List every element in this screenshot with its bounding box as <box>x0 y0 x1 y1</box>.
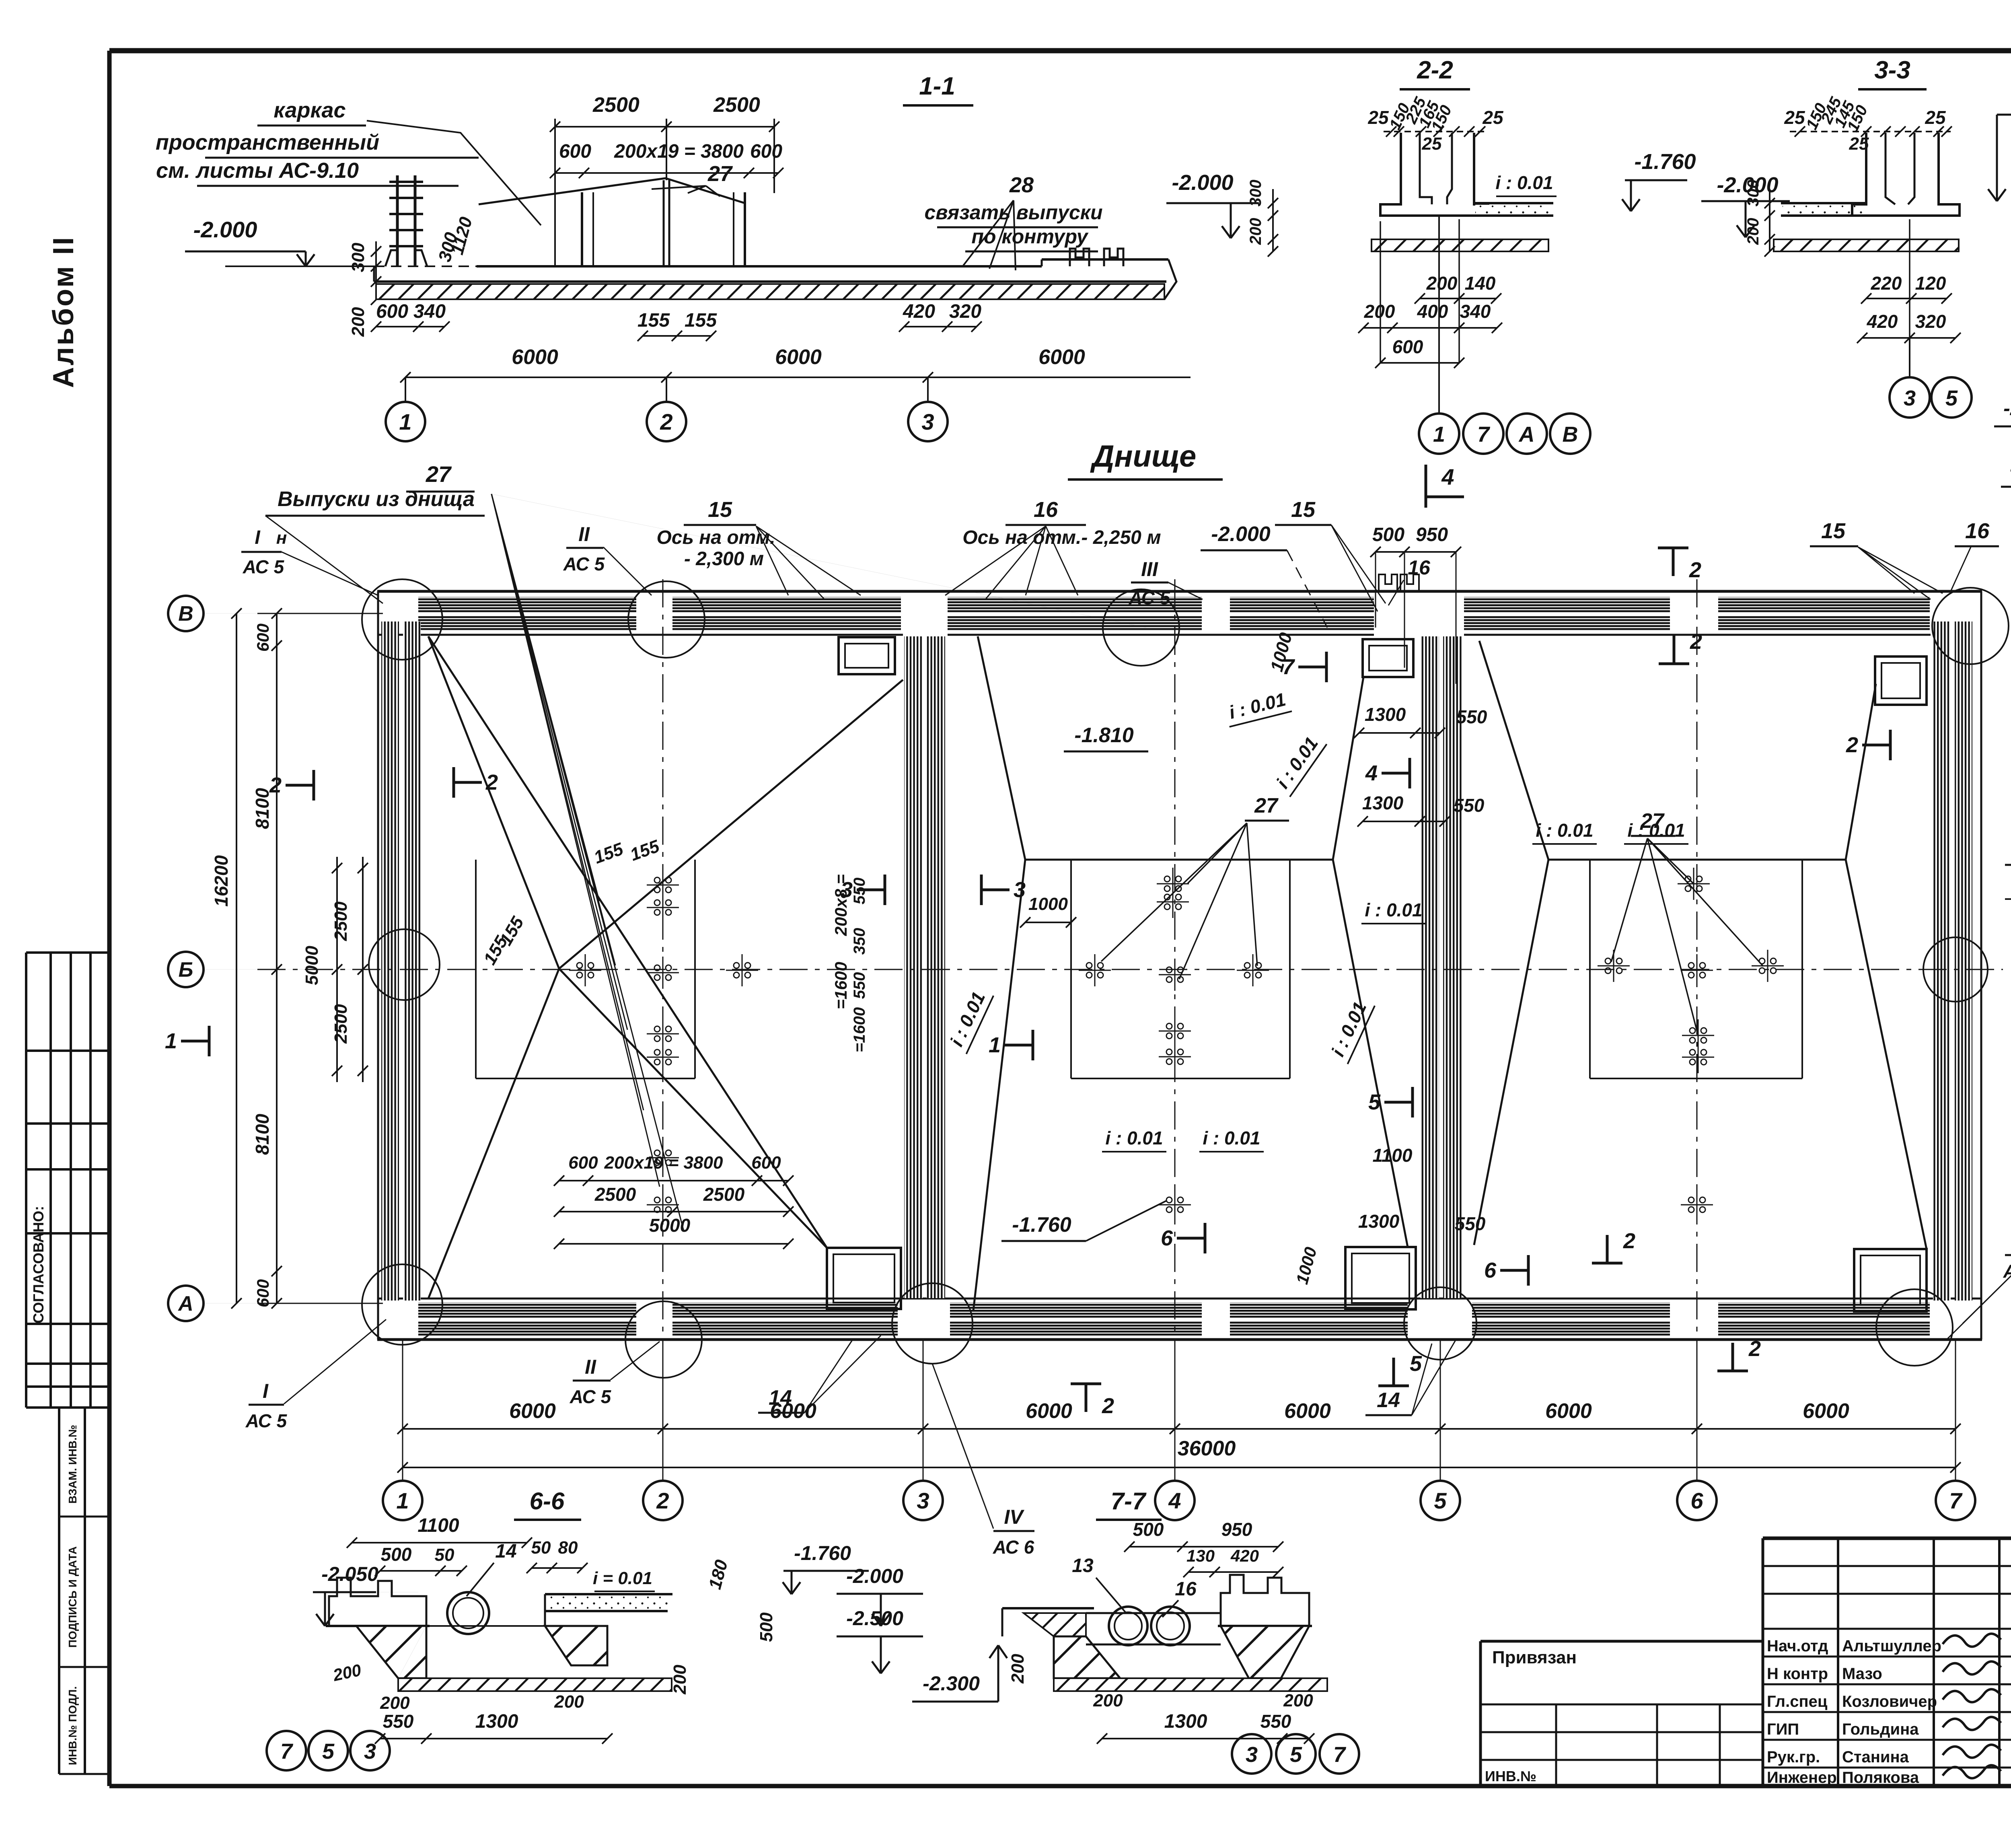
svg-text:320: 320 <box>1915 311 1946 332</box>
svg-text:4: 4 <box>1441 464 1454 490</box>
flag 4 below <box>1425 465 1427 508</box>
flags inside plan <box>313 770 315 801</box>
axis circles 1 2 3 <box>405 377 406 402</box>
6-6 wall <box>329 1578 426 1626</box>
dowel pins top band axis4 <box>1379 574 1397 591</box>
svg-text:Козловичер: Козловичер <box>1842 1693 1937 1710</box>
leader to column <box>367 121 541 225</box>
svg-text:600: 600 <box>253 1279 272 1307</box>
svg-text:I: I <box>255 527 261 548</box>
svg-text:2: 2 <box>1689 558 1701 582</box>
svg-text:-1.760: -1.760 <box>794 1542 851 1564</box>
svg-text:340: 340 <box>413 301 446 322</box>
svg-text:950: 950 <box>1416 524 1448 545</box>
svg-text:3: 3 <box>1904 386 1916 410</box>
svg-text:8100: 8100 <box>252 1113 273 1155</box>
svg-text:А: А <box>1518 422 1535 447</box>
svg-text:по контуру: по контуру <box>971 225 1088 248</box>
plan top wall band <box>377 590 1982 593</box>
svg-text:-2.000: -2.000 <box>1172 171 1233 195</box>
svg-text:200: 200 <box>1744 218 1762 245</box>
svg-text:15: 15 <box>708 498 732 522</box>
svg-text:120: 120 <box>1915 273 1946 294</box>
svg-text:500: 500 <box>381 1544 412 1565</box>
portal frame <box>581 192 583 265</box>
svg-text:200: 200 <box>1364 301 1395 322</box>
svg-text:Б: Б <box>179 958 193 982</box>
svg-text:3: 3 <box>1246 1743 1258 1767</box>
svg-text:АС 6: АС 6 <box>993 1537 1034 1558</box>
svg-text:-2.000: -2.000 <box>193 217 257 242</box>
svg-text:2: 2 <box>1623 1229 1635 1253</box>
svg-text:950: 950 <box>1221 1519 1252 1540</box>
svg-text:320: 320 <box>949 301 981 322</box>
svg-text:i : 0.01: i : 0.01 <box>1365 899 1422 920</box>
svg-text:Альтшуллер: Альтшуллер <box>1842 1637 1941 1655</box>
svg-text:=1600: =1600 <box>831 962 850 1009</box>
plan columns section2 <box>1157 883 1189 885</box>
svg-text:Привязан: Привязан <box>1492 1648 1577 1667</box>
equipment zones <box>475 860 477 1078</box>
svg-text:15: 15 <box>1291 498 1316 522</box>
svg-text:600: 600 <box>751 1153 781 1173</box>
svg-text:7: 7 <box>1333 1743 1347 1767</box>
partition wall axis5 <box>1421 636 1439 1298</box>
svg-text:400: 400 <box>1417 301 1448 322</box>
svg-text:-1.760: -1.760 <box>1634 150 1696 174</box>
svg-text:СОГЛАСОВАНО:: СОГЛАСОВАНО: <box>30 1206 47 1323</box>
svg-text:1100: 1100 <box>417 1515 459 1536</box>
svg-text:420: 420 <box>1230 1546 1259 1565</box>
svg-text:1300: 1300 <box>1164 1711 1207 1732</box>
svg-text:6000: 6000 <box>512 346 558 369</box>
svg-text:25: 25 <box>1482 107 1504 128</box>
column axis2 <box>663 180 665 265</box>
svg-text:4: 4 <box>1365 761 1378 785</box>
svg-text:500: 500 <box>1372 524 1404 545</box>
svg-text:6: 6 <box>1161 1226 1173 1250</box>
svg-text:5: 5 <box>1290 1743 1302 1767</box>
svg-text:I: I <box>263 1380 269 1402</box>
svg-text:5: 5 <box>1368 1090 1381 1114</box>
svg-text:6: 6 <box>1690 1488 1703 1513</box>
svg-text:1: 1 <box>396 1488 409 1513</box>
axis circles V B A <box>205 613 383 614</box>
svg-text:1: 1 <box>989 1033 1001 1057</box>
svg-text:каркас: каркас <box>273 98 345 122</box>
sump pits <box>839 637 895 674</box>
section flag 4 top <box>1425 465 1426 508</box>
svg-text:50: 50 <box>435 1545 454 1565</box>
svg-text:6000: 6000 <box>1038 346 1085 369</box>
svg-text:6000: 6000 <box>775 346 822 369</box>
svg-text:В: В <box>1563 422 1578 447</box>
svg-text:АС 6: АС 6 <box>2003 1261 2011 1282</box>
svg-text:550: 550 <box>1454 795 1485 816</box>
svg-text:7: 7 <box>1949 1488 1963 1513</box>
svg-text:Гольдина: Гольдина <box>1842 1720 1919 1738</box>
svg-text:14: 14 <box>769 1386 792 1410</box>
svg-text:220: 220 <box>1871 273 1902 294</box>
svg-text:550: 550 <box>383 1711 414 1732</box>
svg-text:200x19 = 3800: 200x19 = 3800 <box>604 1153 723 1173</box>
svg-text:340: 340 <box>1460 301 1491 322</box>
svg-text:i = 0.01: i = 0.01 <box>593 1568 652 1588</box>
7-7 slab left hatched <box>1024 1613 1086 1636</box>
svg-text:-1.810: -1.810 <box>1074 724 1134 747</box>
svg-text:550: 550 <box>1260 1711 1291 1732</box>
svg-text:6000: 6000 <box>1803 1399 1849 1423</box>
svg-text:14: 14 <box>1377 1389 1400 1412</box>
svg-text:200: 200 <box>380 1693 410 1713</box>
svg-text:Выпуски из днища: Выпуски из днища <box>278 488 475 511</box>
partition wall axis3 <box>904 636 923 1298</box>
svg-text:1: 1 <box>165 1029 177 1053</box>
svg-text:3: 3 <box>917 1488 929 1513</box>
svg-text:-2.500: -2.500 <box>846 1607 903 1630</box>
svg-text:600: 600 <box>559 141 591 162</box>
svg-text:28: 28 <box>1009 173 1034 197</box>
svg-text:1000: 1000 <box>1028 894 1068 914</box>
svg-text:Нач.отд: Нач.отд <box>1767 1637 1828 1655</box>
svg-text:13: 13 <box>1072 1555 1094 1576</box>
svg-text:200: 200 <box>348 307 368 337</box>
column axis1 karkas <box>396 175 399 265</box>
svg-text:i : 0.01: i : 0.01 <box>1105 1128 1163 1148</box>
svg-text:200x19 = 3800: 200x19 = 3800 <box>614 141 744 162</box>
title block <box>1763 1537 2011 1540</box>
privyazan box <box>1480 1640 1763 1643</box>
inventory column <box>58 1408 60 1774</box>
slope lines section3 <box>1479 641 1548 860</box>
svg-text:ИНВ.№ ПОДЛ.: ИНВ.№ ПОДЛ. <box>66 1686 79 1765</box>
svg-text:5: 5 <box>1945 386 1958 410</box>
slab break right <box>1164 259 1176 299</box>
svg-text:II: II <box>585 1356 596 1378</box>
svg-text:420: 420 <box>1867 311 1898 332</box>
svg-text:5: 5 <box>1410 1352 1422 1376</box>
7-7 circles 3 5 7 <box>1232 1734 1271 1774</box>
svg-text:6: 6 <box>1484 1258 1497 1282</box>
svg-text:-2.000: -2.000 <box>846 1565 903 1587</box>
svg-text:200: 200 <box>1283 1691 1313 1710</box>
svg-text:5: 5 <box>322 1739 335 1764</box>
bottom axis circles <box>402 1340 403 1481</box>
svg-text:Ось на отм.- 2,250 м: Ось на отм.- 2,250 м <box>962 527 1161 548</box>
border frame <box>109 48 2011 54</box>
2-2 wall <box>1380 133 1488 216</box>
7-7 wall right <box>1221 1575 1309 1626</box>
svg-text:2: 2 <box>660 409 672 434</box>
svg-text:Рук.гр.: Рук.гр. <box>1767 1748 1820 1766</box>
svg-text:i : 0.01: i : 0.01 <box>1627 820 1685 841</box>
svg-text:Инженер: Инженер <box>1767 1769 1837 1786</box>
leader from plan to IV <box>932 1364 993 1525</box>
svg-text:80: 80 <box>558 1538 578 1558</box>
svg-text:- 2,300 м: - 2,300 м <box>684 548 764 570</box>
svg-text:300: 300 <box>1247 180 1265 207</box>
svg-text:-1.760: -1.760 <box>1012 1213 1071 1237</box>
svg-text:2: 2 <box>1846 733 1858 757</box>
svg-text:15: 15 <box>1821 519 1846 543</box>
svg-text:ГИП: ГИП <box>1767 1720 1799 1738</box>
svg-text:i : 0.01: i : 0.01 <box>1203 1128 1260 1148</box>
svg-text:50: 50 <box>531 1538 551 1558</box>
svg-text:600: 600 <box>1392 336 1423 357</box>
svg-text:8100: 8100 <box>252 788 273 829</box>
svg-text:600: 600 <box>376 301 408 322</box>
svg-text:200: 200 <box>670 1665 690 1695</box>
svg-text:III: III <box>1141 558 1158 580</box>
svg-text:420: 420 <box>903 301 935 322</box>
svg-text:Полякова: Полякова <box>1842 1769 1919 1786</box>
svg-text:3: 3 <box>364 1739 376 1764</box>
svg-text:350: 350 <box>851 928 868 955</box>
svg-text:1300: 1300 <box>1365 704 1406 725</box>
svg-text:600: 600 <box>253 624 272 652</box>
plan left wall strips <box>381 621 399 1301</box>
svg-text:6000: 6000 <box>1545 1399 1592 1423</box>
svg-text:2500: 2500 <box>703 1184 745 1205</box>
plan columns section1 <box>647 885 679 886</box>
dowel pins on slab <box>1070 249 1089 266</box>
detail circles <box>362 579 442 660</box>
svg-text:36000: 36000 <box>1178 1437 1236 1460</box>
svg-text:1100: 1100 <box>1373 1145 1413 1166</box>
svg-text:500: 500 <box>1133 1519 1164 1540</box>
svg-text:16: 16 <box>1175 1578 1197 1600</box>
svg-text:155: 155 <box>685 310 717 331</box>
svg-text:7-7: 7-7 <box>1111 1488 1147 1515</box>
svg-text:1300: 1300 <box>1362 792 1404 813</box>
axis centerlines <box>662 579 664 1368</box>
svg-text:см. листы АС-9.10: см. листы АС-9.10 <box>156 158 359 183</box>
svg-text:=1600: =1600 <box>851 1007 868 1052</box>
6-6 slab right <box>545 1593 672 1595</box>
plan columns section3 <box>1678 883 1710 885</box>
approval stamp table <box>26 951 109 954</box>
svg-text:-2.000: -2.000 <box>2003 397 2011 420</box>
svg-text:550: 550 <box>851 878 868 905</box>
svg-text:АС 5: АС 5 <box>243 556 285 577</box>
svg-text:200: 200 <box>554 1692 584 1712</box>
svg-text:27: 27 <box>426 461 452 487</box>
svg-text:6000: 6000 <box>1284 1399 1331 1423</box>
svg-text:ВЗАМ. ИНВ.№: ВЗАМ. ИНВ.№ <box>66 1425 79 1504</box>
6-6 bottom strip <box>398 1678 672 1691</box>
svg-text:300: 300 <box>1744 180 1762 207</box>
svg-text:7: 7 <box>1477 422 1491 447</box>
leaders 15/16 to walls <box>491 494 1146 628</box>
svg-text:600: 600 <box>568 1153 598 1173</box>
7-7 wedge right <box>1221 1626 1309 1678</box>
2-2 slab right <box>1474 202 1553 204</box>
svg-text:Днище: Днище <box>1090 439 1197 473</box>
7-7 wedge <box>1054 1636 1120 1678</box>
svg-text:i : 0.01: i : 0.01 <box>1495 172 1553 193</box>
3-3 wall <box>1852 133 1960 216</box>
rotated 300 200 <box>1272 189 1274 251</box>
svg-text:Н контр: Н контр <box>1767 1665 1828 1683</box>
svg-text:200: 200 <box>1093 1691 1123 1710</box>
svg-text:3: 3 <box>1014 878 1026 902</box>
svg-text:АС 5: АС 5 <box>1129 587 1171 608</box>
svg-text:Станина: Станина <box>1842 1748 1909 1766</box>
svg-text:300: 300 <box>348 243 368 272</box>
svg-text:14: 14 <box>495 1541 516 1562</box>
6-6 pipe <box>447 1592 489 1634</box>
svg-text:550: 550 <box>851 972 868 999</box>
svg-text:пространственный: пространственный <box>156 130 379 154</box>
3-3 bedding <box>1774 239 1959 251</box>
svg-text:i : 0.01: i : 0.01 <box>1536 820 1593 841</box>
svg-text:II: II <box>578 523 590 545</box>
svg-text:2: 2 <box>1690 630 1702 654</box>
svg-text:2500: 2500 <box>592 93 639 117</box>
svg-text:6-6: 6-6 <box>530 1488 565 1515</box>
svg-text:2500: 2500 <box>331 901 351 941</box>
svg-text:5000: 5000 <box>302 946 322 985</box>
svg-text:5000: 5000 <box>649 1215 691 1236</box>
svg-text:6000: 6000 <box>1026 1399 1072 1423</box>
svg-text:2: 2 <box>485 770 498 794</box>
svg-text:16200: 16200 <box>211 855 232 907</box>
svg-text:16: 16 <box>1408 556 1431 579</box>
6-6 circles 7 5 3 <box>267 1731 306 1770</box>
circles 1 7 A B <box>1438 216 1440 414</box>
svg-text:25: 25 <box>1925 107 1946 128</box>
svg-text:6000: 6000 <box>509 1399 556 1423</box>
svg-text:155: 155 <box>637 310 670 331</box>
svg-text:1: 1 <box>1433 422 1445 447</box>
svg-text:АС 5: АС 5 <box>245 1410 288 1431</box>
svg-text:2: 2 <box>1102 1394 1114 1418</box>
slope lines section2 <box>978 636 1025 860</box>
circles 3 5 <box>1909 338 1910 376</box>
svg-text:600: 600 <box>750 141 782 162</box>
svg-text:В: В <box>178 602 193 626</box>
svg-text:7: 7 <box>280 1739 294 1764</box>
svg-text:500: 500 <box>757 1612 776 1642</box>
svg-text:200: 200 <box>1247 218 1265 245</box>
svg-text:140: 140 <box>1465 273 1496 294</box>
svg-text:А: А <box>177 1292 193 1315</box>
svg-text:-2.000: -2.000 <box>1211 523 1271 546</box>
svg-text:2: 2 <box>656 1488 669 1513</box>
svg-text:2-2: 2-2 <box>1417 56 1453 84</box>
svg-text:ПОДПИСЬ И ДАТА: ПОДПИСЬ И ДАТА <box>66 1546 79 1648</box>
rotated 300 200 (3-3) <box>1769 189 1770 251</box>
svg-text:Альбом II: Альбом II <box>47 236 80 388</box>
svg-text:IV: IV <box>1004 1506 1024 1528</box>
svg-text:1300: 1300 <box>1358 1211 1400 1232</box>
6-6 step mid <box>545 1626 607 1665</box>
svg-text:550: 550 <box>1455 1213 1486 1234</box>
svg-text:25: 25 <box>1422 134 1442 154</box>
svg-text:1: 1 <box>399 409 411 434</box>
dim 300/200 left of slab <box>375 241 377 300</box>
svg-text:200: 200 <box>1008 1654 1028 1684</box>
svg-text:16: 16 <box>1034 498 1058 522</box>
plan bottom wall band <box>377 1298 1982 1300</box>
3-3 slab left <box>1781 202 1866 204</box>
svg-text:2500: 2500 <box>713 93 760 117</box>
plan right wall strips <box>1933 621 1951 1301</box>
svg-text:ИНВ.№: ИНВ.№ <box>1485 1768 1536 1784</box>
2-2 bedding <box>1372 239 1548 251</box>
svg-text:25: 25 <box>1784 107 1805 128</box>
svg-text:550: 550 <box>1456 706 1487 727</box>
svg-text:5: 5 <box>1434 1488 1447 1513</box>
svg-text:130: 130 <box>1186 1546 1215 1565</box>
svg-text:27: 27 <box>1254 794 1279 817</box>
svg-text:-2.300: -2.300 <box>923 1672 980 1695</box>
7-7 pipes <box>1109 1607 1147 1645</box>
svg-text:16: 16 <box>1965 519 1990 543</box>
section 1-1 floor slab <box>374 280 1166 283</box>
svg-text:Гл.спец: Гл.спец <box>1767 1693 1828 1710</box>
svg-text:200: 200 <box>1426 273 1458 294</box>
slope lines section1 <box>428 636 559 969</box>
svg-text:4: 4 <box>1168 1488 1181 1513</box>
svg-text:3-3: 3-3 <box>1874 56 1910 84</box>
svg-text:2: 2 <box>1748 1337 1761 1361</box>
svg-text:200x8 =: 200x8 = <box>831 875 850 936</box>
svg-text:АС 5: АС 5 <box>570 1386 612 1407</box>
svg-text:Мазо: Мазо <box>1842 1665 1882 1683</box>
6-6 wedge left <box>356 1626 426 1678</box>
svg-text:2500: 2500 <box>331 1004 351 1044</box>
svg-text:АС 5: АС 5 <box>563 554 605 574</box>
svg-text:1-1: 1-1 <box>919 72 955 100</box>
7-7 bottom strip <box>1054 1678 1327 1691</box>
svg-text:1300: 1300 <box>475 1711 518 1732</box>
svg-text:3: 3 <box>921 409 934 434</box>
left dim chains <box>276 613 278 1303</box>
svg-text:2500: 2500 <box>594 1184 636 1205</box>
svg-text:н: н <box>276 528 287 548</box>
